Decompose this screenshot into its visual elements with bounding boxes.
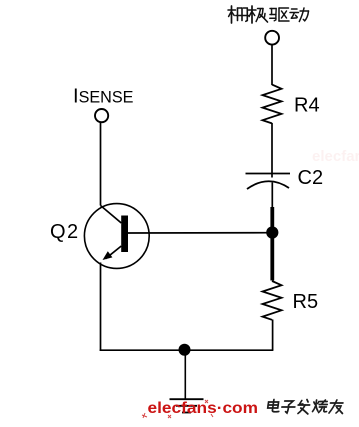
wire: Q2 emitter down to rail <box>100 263 102 352</box>
capacitor C2 <box>246 174 291 190</box>
动 <box>290 8 309 22</box>
wire: bottom rail <box>100 349 274 351</box>
驱 <box>270 8 289 21</box>
子 <box>281 401 296 413</box>
栅 <box>228 6 248 23</box>
label 栅极驱动 (gate drive) <box>228 6 309 23</box>
svg-text:ISENSE: ISENSE <box>73 86 134 108</box>
wire: R4 to C2 <box>271 123 273 178</box>
resistor R5 <box>263 281 282 320</box>
terminal: gate drive input <box>265 31 279 45</box>
svg-text:R4: R4 <box>294 95 320 117</box>
wire: gate terminal to R4 <box>271 44 273 85</box>
友 <box>329 400 344 414</box>
svg-text:R5: R5 <box>293 291 319 313</box>
wire: ISENSE terminal to Q2 collector <box>100 122 102 205</box>
node: junction of C2, R5, Q2 base <box>266 226 278 238</box>
极 <box>249 6 268 23</box>
发 <box>297 400 311 415</box>
junction dot on rail <box>179 344 191 356</box>
watermark: 电子发烧友 <box>267 400 345 415</box>
烧 <box>312 400 328 413</box>
terminal: ISENSE input <box>95 109 108 122</box>
svg-text:C2: C2 <box>298 167 324 189</box>
电 <box>267 400 280 412</box>
svg-text:elecfans·com: elecfans·com <box>312 148 359 165</box>
wire: R5 to bottom rail <box>272 320 274 351</box>
wire (bold): through node to R5 <box>270 207 274 281</box>
wire: C2 to node <box>271 183 273 209</box>
transistor Q2 <box>84 204 149 269</box>
wire: Q2 base lead to node <box>128 232 272 234</box>
svg-text:Q2: Q2 <box>50 221 80 243</box>
svg-text:elecfans·com: elecfans·com <box>148 400 259 417</box>
resistor R4 <box>263 85 282 124</box>
watermark: elecfans.com logo <box>142 400 258 418</box>
ground <box>170 399 204 412</box>
wire: rail to ground <box>184 350 186 399</box>
